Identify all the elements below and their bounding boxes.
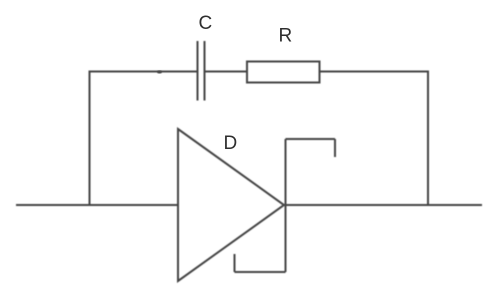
svg-text:C: C [199, 13, 213, 34]
svg-text:R: R [279, 26, 293, 47]
svg-text:D: D [224, 133, 238, 154]
